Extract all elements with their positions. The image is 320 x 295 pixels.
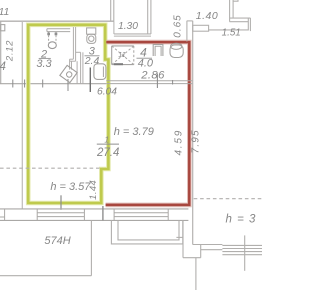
svg-text:1: 1 — [104, 135, 109, 145]
niche box — [193, 25, 209, 31]
svg-text:1.51: 1.51 — [222, 27, 241, 38]
tick window3 — [244, 235, 246, 270]
right wall long — [192, 21, 194, 245]
wall neighbour left — [21, 21, 23, 209]
tick 2.86 leader — [156, 74, 158, 88]
tick — [67, 79, 69, 91]
wall stub dark — [89, 68, 91, 93]
band left cap — [4, 209, 6, 221]
svg-text:6.04: 6.04 — [97, 87, 117, 98]
tick — [42, 80, 44, 88]
svg-text:7.95: 7.95 — [191, 129, 202, 153]
svg-text:2.86: 2.86 — [140, 70, 165, 82]
svg-text:4: 4 — [0, 61, 6, 73]
svg-text:11: 11 — [118, 50, 125, 59]
tick — [12, 80, 14, 88]
toilet room4 — [171, 43, 182, 49]
wall double above room4 — [147, 0, 149, 34]
svg-text:1.30: 1.30 — [118, 21, 138, 32]
window3 right — [222, 244, 262, 246]
partition wall rooms 2-3 — [72, 27, 74, 59]
svg-text:2.4: 2.4 — [84, 55, 100, 67]
wall left edge — [0, 21, 2, 84]
dashed ceiling line left — [0, 167, 103, 169]
niche top double v — [229, 0, 231, 22]
area overline — [97, 143, 119, 145]
dim line 6.04 baseline — [0, 83, 106, 85]
tick — [172, 80, 174, 85]
balcony outer — [111, 220, 182, 244]
svg-text:3.3: 3.3 — [36, 58, 52, 70]
sink room4 — [153, 45, 163, 57]
tick — [24, 80, 26, 88]
svg-text:h = 3.79: h = 3.79 — [114, 126, 154, 138]
svg-text:1.40: 1.40 — [196, 10, 218, 22]
svg-text:h = 3.57: h = 3.57 — [50, 181, 91, 193]
door jamb top-left — [1, 25, 5, 31]
bottom band top — [0, 208, 188, 210]
window2 — [113, 209, 115, 221]
dashed ceiling line right — [194, 198, 262, 200]
balcony left bottom — [0, 275, 91, 277]
wall seg — [76, 51, 81, 53]
red room outline — [106, 42, 190, 205]
wire top outer wall — [0, 20, 114, 22]
svg-text:4.59: 4.59 — [174, 129, 185, 156]
svg-text:0.65: 0.65 — [172, 14, 183, 37]
band left mini lines — [0, 216, 5, 218]
lower right cluster — [182, 220, 184, 257]
svg-text:11: 11 — [0, 6, 9, 18]
vent shaft box — [112, 45, 134, 47]
balcony left wall — [90, 220, 92, 275]
bath room2 top — [47, 28, 70, 30]
niche line — [209, 29, 249, 31]
room4 top wall — [113, 21, 115, 34]
green flat outline — [28, 25, 108, 203]
svg-text:4.0: 4.0 — [138, 58, 154, 70]
svg-text:2.12: 2.12 — [5, 40, 16, 62]
washbasin room2 — [48, 32, 50, 43]
right wall above red — [186, 21, 188, 42]
wall top middle double — [110, 0, 112, 21]
toilet room3 — [87, 28, 96, 34]
window1 — [36, 209, 38, 221]
bottom band bottom — [0, 219, 188, 221]
svg-text:1.44: 1.44 — [88, 180, 99, 200]
niche right double v — [247, 18, 249, 31]
svg-text:27.4: 27.4 — [96, 147, 119, 159]
room4 bottom wall — [106, 80, 192, 82]
svg-text:574Н: 574Н — [44, 235, 70, 247]
niche top double h — [230, 17, 251, 19]
shower tray — [94, 64, 106, 80]
svg-text:h = 3: h = 3 — [226, 214, 257, 226]
washing machine — [60, 65, 77, 82]
wall cap — [187, 20, 193, 22]
tick bottom green — [60, 195, 62, 210]
balcony inner — [118, 220, 179, 240]
tiny mark top — [233, 0, 238, 1]
wall stub between flats — [102, 206, 104, 220]
